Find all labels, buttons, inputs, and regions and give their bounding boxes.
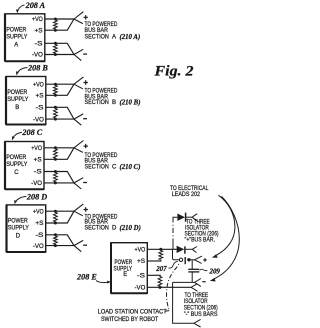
wire +VO row E	[147, 248, 176, 251]
bus bar destination text A	[85, 21, 141, 41]
svg-text:SECTION: SECTION	[85, 99, 109, 106]
wire -VO row E	[147, 286, 191, 289]
svg-text:+S: +S	[35, 221, 43, 227]
svg-text:-VO: -VO	[135, 286, 146, 292]
wire down to bottom fork	[173, 282, 194, 323]
connector fork bottom isolator	[194, 319, 201, 327]
connector fork - isolator	[195, 279, 206, 287]
label 209 with leader	[200, 268, 221, 275]
movable contact circle 207	[179, 258, 182, 261]
text to three isolator section (206) + bus bar	[185, 219, 219, 244]
wire -VO row B	[46, 118, 74, 120]
power supply B box	[6, 77, 46, 125]
svg-text:+VO: +VO	[135, 248, 146, 254]
sense resistor lower A	[54, 42, 58, 56]
svg-text:+VO: +VO	[31, 146, 42, 152]
label 208A with leader	[16, 1, 46, 12]
svg-text:"+"BUS BAR.: "+"BUS BAR.	[185, 237, 216, 244]
svg-text:POWER: POWER	[6, 155, 26, 161]
text to electrical leads 202	[170, 185, 209, 198]
svg-text:SECTION: SECTION	[85, 164, 109, 171]
svg-text:(210 B): (210 B)	[120, 100, 141, 107]
connector fork + D	[74, 204, 88, 216]
svg-text:-S: -S	[35, 233, 43, 239]
svg-text:208 E: 208 E	[76, 272, 97, 281]
text load station contact switched by robot	[98, 309, 167, 323]
wire +S row B	[46, 84, 74, 95]
diode lower (on +VO wire)	[177, 246, 193, 254]
svg-text:+S: +S	[35, 28, 43, 34]
wire -S row C	[44, 172, 74, 183]
svg-text:+VO: +VO	[33, 82, 44, 88]
wire capacitor bottom to - fork	[173, 281, 195, 283]
dash-dot robot actuation line	[165, 263, 180, 312]
svg-text:+S: +S	[36, 94, 44, 100]
svg-text:SUPPLY: SUPPLY	[8, 225, 29, 231]
wire +VO row C	[44, 147, 74, 149]
text to three isolator section (206) - bus bars	[184, 292, 218, 318]
wire contact to + fork	[189, 259, 195, 261]
label 208C with leader	[12, 128, 43, 140]
svg-text:-S: -S	[137, 274, 145, 280]
figure title Fig. 2	[153, 64, 193, 80]
curved arrow to - fork	[210, 196, 240, 281]
wire +VO row B	[46, 83, 74, 85]
wire -VO row D	[46, 245, 74, 247]
bus bar destination text B	[85, 88, 141, 107]
svg-text:(210 C): (210 C)	[120, 164, 141, 171]
svg-text:-S: -S	[34, 170, 42, 176]
wire +VO row D	[46, 210, 74, 212]
power supply E box	[111, 243, 147, 294]
svg-text:(210 D): (210 D)	[120, 225, 141, 232]
svg-text:SWITCHED BY ROBOT: SWITCHED BY ROBOT	[101, 316, 159, 323]
svg-text:207: 207	[155, 266, 167, 273]
connector fork lower diode	[192, 247, 197, 253]
svg-text:LEADS 202: LEADS 202	[172, 191, 201, 198]
capacitor 209 stem upper	[191, 260, 193, 269]
wire -S row E	[147, 274, 161, 276]
svg-text:+S: +S	[137, 259, 145, 265]
svg-text:-VO: -VO	[33, 117, 44, 123]
label 207 with leader	[155, 261, 178, 273]
curved arrow to + fork	[212, 195, 235, 257]
power supply D box	[7, 205, 46, 252]
sense resistor lower E	[158, 275, 162, 287]
svg-text:208 A: 208 A	[25, 1, 46, 10]
wire +VO row A	[45, 18, 74, 20]
svg-text:208 B: 208 B	[27, 63, 48, 72]
sense resistor upper E	[159, 249, 163, 261]
svg-text:"-" BUS BARS: "-" BUS BARS	[184, 311, 218, 318]
wire -S row A	[45, 43, 74, 54]
wire -VO row A	[45, 54, 74, 56]
svg-text:A: A	[112, 33, 117, 40]
svg-text:SUPPLY: SUPPLY	[6, 162, 27, 168]
label 208B with leader	[16, 63, 48, 74]
connector fork + isolator	[195, 256, 207, 263]
svg-text:208 D: 208 D	[26, 192, 47, 201]
connector fork + B	[74, 77, 88, 89]
svg-text:SECTION: SECTION	[85, 33, 109, 40]
sense resistor upper B	[54, 83, 58, 97]
connector fork -VO E	[191, 284, 198, 292]
svg-text:B: B	[15, 105, 19, 111]
svg-text:-S: -S	[36, 106, 44, 112]
diode upper (to + bus bar)	[177, 213, 192, 222]
wire drop to movable contact	[173, 249, 180, 259]
connector fork - D	[74, 240, 87, 251]
connector fork - A	[74, 49, 87, 60]
svg-text:C: C	[112, 164, 117, 171]
svg-text:-S: -S	[35, 42, 43, 48]
sense resistor upper C	[54, 146, 58, 161]
wire -VO row C	[44, 182, 74, 184]
power supply A box	[5, 14, 45, 61]
svg-text:D: D	[16, 234, 21, 240]
svg-text:POWER: POWER	[7, 90, 27, 96]
connector fork + C	[74, 141, 88, 153]
svg-text:LOAD STATION CONTACT: LOAD STATION CONTACT	[98, 309, 167, 316]
capacitor 209 plates	[188, 269, 199, 272]
connector fork + A	[74, 12, 88, 24]
wire +S row E	[147, 260, 161, 262]
sense resistor upper D	[54, 210, 58, 225]
junction node contact output	[187, 258, 190, 261]
svg-text:+VO: +VO	[33, 209, 44, 215]
sense resistor lower D	[54, 233, 58, 247]
connector fork - C	[74, 178, 87, 189]
sense resistor lower B	[54, 106, 58, 121]
wire +S row C	[44, 148, 74, 160]
svg-text:-VO: -VO	[32, 53, 43, 59]
svg-text:208 C: 208 C	[21, 128, 42, 137]
wire -S row D	[46, 235, 74, 246]
svg-text:Fig. 2: Fig. 2	[153, 64, 193, 80]
label 208D with leader	[14, 192, 47, 203]
svg-text:+VO: +VO	[32, 17, 43, 23]
svg-text:A: A	[14, 43, 18, 49]
dash-dot riser wire to upper diode	[173, 217, 177, 249]
sense resistor upper A	[54, 18, 58, 32]
svg-text:C: C	[14, 170, 19, 176]
svg-text:POWER: POWER	[115, 260, 133, 266]
label 208E with leader arrow	[76, 272, 111, 283]
svg-text:-VO: -VO	[33, 244, 44, 250]
svg-text:(210 A): (210 A)	[120, 34, 141, 41]
svg-text:POWER: POWER	[6, 27, 26, 33]
bus bar destination text D	[85, 213, 141, 232]
svg-text:POWER: POWER	[8, 218, 28, 224]
svg-text:-VO: -VO	[31, 181, 42, 187]
power supply C box	[5, 142, 44, 190]
wire +S row A	[45, 19, 74, 30]
wire -S row B	[46, 107, 74, 119]
svg-text:209: 209	[209, 268, 221, 275]
svg-text:+S: +S	[34, 158, 42, 164]
capacitor 209 stem lower	[191, 272, 193, 283]
svg-text:SUPPLY: SUPPLY	[6, 34, 27, 40]
svg-text:SECTION: SECTION	[85, 225, 109, 232]
connector fork upper diode	[192, 214, 197, 221]
fixed contact bar	[184, 257, 186, 264]
sense resistor lower C	[54, 170, 58, 184]
bus bar destination text C	[85, 152, 141, 171]
connector fork - B	[74, 114, 87, 125]
svg-text:B: B	[112, 99, 116, 106]
svg-text:SUPPLY: SUPPLY	[7, 97, 28, 103]
svg-text:E: E	[123, 272, 127, 278]
wire +S row D	[46, 211, 74, 223]
svg-text:D: D	[112, 225, 117, 232]
